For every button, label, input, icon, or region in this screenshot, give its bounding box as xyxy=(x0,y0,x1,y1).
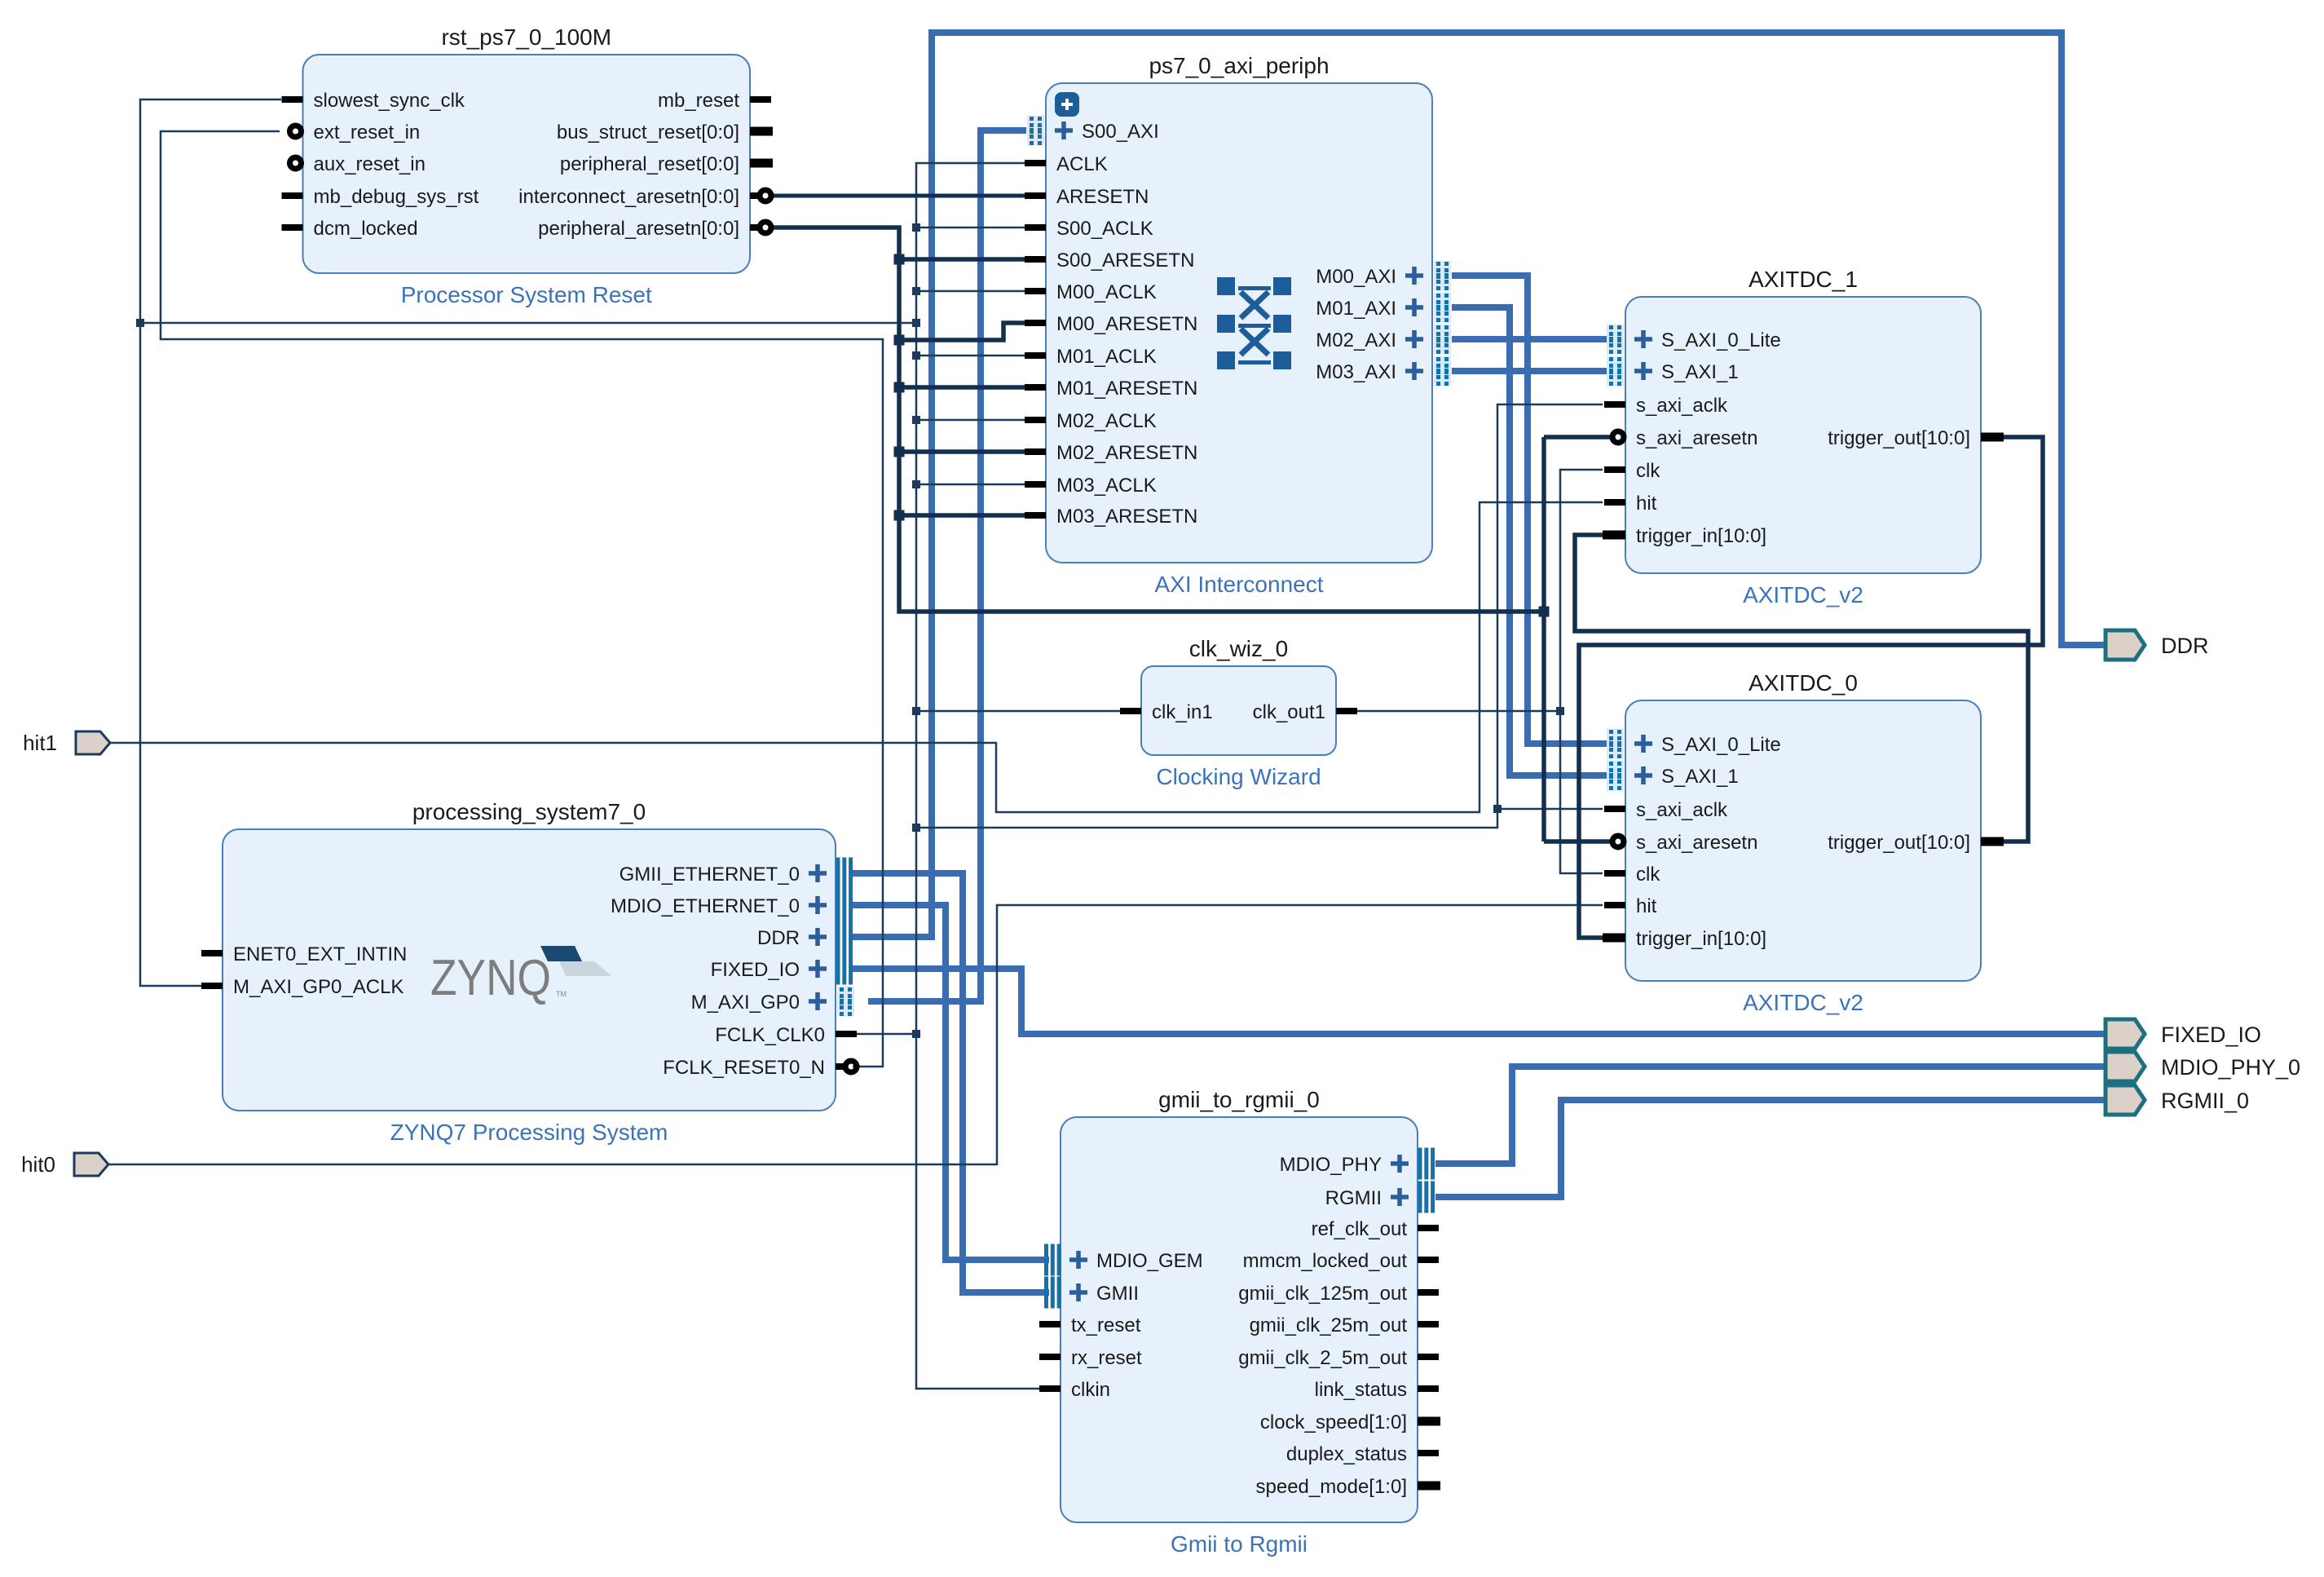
block rst_ps7_0_100M (Processor System Reset) xyxy=(282,24,774,307)
external port FIXED_IO xyxy=(2106,1019,2261,1049)
svg-text:AXITDC_1: AXITDC_1 xyxy=(1749,267,1858,292)
wire net hit0 to AXITDC_0 hit xyxy=(108,905,1603,1164)
svg-text:MDIO_PHY: MDIO_PHY xyxy=(1280,1154,1382,1176)
pin processing_system7_0.FIXED_IO xyxy=(711,953,853,985)
svg-text:S_AXI_0_Lite: S_AXI_0_Lite xyxy=(1661,734,1781,756)
svg-text:ZYNQ7 Processing System: ZYNQ7 Processing System xyxy=(390,1120,668,1145)
expand icon of ps7_0_axi_periph xyxy=(1055,92,1079,117)
pin processing_system7_0.FCLK_CLK0 xyxy=(715,1024,857,1046)
pin AXITDC_1.S_AXI_1 xyxy=(1607,356,1739,387)
pin clk_wiz_0.clk_out1 xyxy=(1253,701,1357,723)
wire bus DDR to external port xyxy=(853,33,2108,937)
wire bus M01_AXI to AXITDC_0 S_AXI_1 xyxy=(1452,307,1607,775)
svg-text:ext_reset_in: ext_reset_in xyxy=(314,121,421,144)
svg-text:ref_clk_out: ref_clk_out xyxy=(1312,1218,1408,1240)
pin gmii_to_rgmii_0.mmcm_locked_out xyxy=(1243,1250,1439,1272)
svg-text:peripheral_aresetn[0:0]: peripheral_aresetn[0:0] xyxy=(538,218,739,240)
svg-text:clk_in1: clk_in1 xyxy=(1152,701,1213,723)
svg-text:AXI Interconnect: AXI Interconnect xyxy=(1154,572,1323,597)
wire net FCLK_CLK0 branch M02_ACLK xyxy=(916,419,1025,422)
svg-text:aux_reset_in: aux_reset_in xyxy=(314,153,426,175)
block gmii_to_rgmii_0 (Gmii to Rgmii) xyxy=(1039,1087,1440,1557)
pin rst_ps7_0_100M.mb_reset xyxy=(658,90,771,112)
external port hit0 xyxy=(74,1153,108,1176)
svg-text:trigger_in[10:0]: trigger_in[10:0] xyxy=(1636,525,1766,547)
pin ps7_0_axi_periph.M03_ACLK xyxy=(1025,475,1157,497)
pin AXITDC_0.s_axi_aresetn xyxy=(1612,832,1757,854)
svg-text:trigger_in[10:0]: trigger_in[10:0] xyxy=(1636,928,1766,950)
wire net peripheral_aresetn to AXITDC_0 s_axi_aresetn xyxy=(1544,839,1612,844)
pin AXITDC_0.s_axi_aclk xyxy=(1604,799,1728,821)
pin processing_system7_0.M_AXI_GP0 xyxy=(691,987,854,1017)
svg-text:speed_mode[1:0]: speed_mode[1:0] xyxy=(1256,1476,1407,1498)
pin ps7_0_axi_periph.S00_ACLK xyxy=(1025,218,1153,240)
pin gmii_to_rgmii_0.GMII xyxy=(1044,1277,1139,1309)
pin gmii_to_rgmii_0.RGMII xyxy=(1325,1182,1435,1213)
pin processing_system7_0.MDIO_ETHERNET_0 xyxy=(611,890,853,921)
svg-text:GMII: GMII xyxy=(1096,1283,1139,1305)
svg-text:MDIO_PHY_0: MDIO_PHY_0 xyxy=(2161,1055,2300,1080)
pin processing_system7_0.FCLK_RESET0_N xyxy=(663,1057,857,1079)
svg-text:peripheral_reset[0:0]: peripheral_reset[0:0] xyxy=(560,153,739,175)
svg-text:clk: clk xyxy=(1636,864,1660,886)
svg-text:hit: hit xyxy=(1636,895,1657,917)
pin rst_ps7_0_100M.peripheral_reset[0:0] xyxy=(560,153,773,175)
svg-text:GMII_ETHERNET_0: GMII_ETHERNET_0 xyxy=(620,864,800,886)
wire net clk_out1 to AXITDC clk pins xyxy=(1560,470,1603,873)
pin ps7_0_axi_periph.M01_ACLK xyxy=(1025,346,1157,368)
svg-text:S00_ARESETN: S00_ARESETN xyxy=(1056,250,1194,272)
wire net peripheral_aresetn branch M01_ARESETN xyxy=(899,385,1025,390)
external port RGMII_0 xyxy=(2106,1085,2249,1115)
pin gmii_to_rgmii_0.MDIO_GEM xyxy=(1044,1244,1203,1276)
svg-text:s_axi_aclk: s_axi_aclk xyxy=(1636,395,1728,417)
wire bus RGMII to external port RGMII_0 xyxy=(1435,1100,2108,1197)
svg-text:tx_reset: tx_reset xyxy=(1071,1314,1141,1336)
svg-text:clkin: clkin xyxy=(1071,1379,1110,1401)
svg-text:bus_struct_reset[0:0]: bus_struct_reset[0:0] xyxy=(557,121,739,144)
svg-text:FIXED_IO: FIXED_IO xyxy=(711,959,800,981)
pin rst_ps7_0_100M.mb_debug_sys_rst xyxy=(282,186,479,208)
junction dots net FCLK_CLK0 xyxy=(136,223,1502,1038)
wire net FCLK_CLK0 branch M03_ACLK xyxy=(916,484,1025,486)
pin ps7_0_axi_periph.M02_ACLK xyxy=(1025,410,1157,432)
pin gmii_to_rgmii_0.gmii_clk_125m_out xyxy=(1238,1283,1439,1305)
wire bus MDIO_ETHERNET_0 to MDIO_GEM xyxy=(853,905,1049,1260)
crossbar icon inside AXI Interconnect xyxy=(1217,277,1291,369)
svg-text:ps7_0_axi_periph: ps7_0_axi_periph xyxy=(1149,53,1329,78)
pin processing_system7_0.DDR xyxy=(757,921,853,953)
pin AXITDC_0.trigger_out[10:0] xyxy=(1828,832,2004,854)
svg-text:M02_ARESETN: M02_ARESETN xyxy=(1056,442,1197,464)
wire net AXITDC_0 trigger_out to AXITDC_1 trigger_in xyxy=(1575,535,2028,842)
pin ps7_0_axi_periph.M00_ARESETN xyxy=(1025,313,1197,335)
svg-text:rx_reset: rx_reset xyxy=(1071,1347,1142,1369)
svg-text:hit0: hit0 xyxy=(21,1152,55,1177)
svg-text:TM: TM xyxy=(556,990,567,998)
svg-text:DDR: DDR xyxy=(757,927,800,949)
pin gmii_to_rgmii_0.ref_clk_out xyxy=(1312,1218,1439,1240)
block ps7_0_axi_periph (AXI Interconnect) xyxy=(1025,53,1451,597)
svg-text:S00_ACLK: S00_ACLK xyxy=(1056,218,1153,240)
pin ps7_0_axi_periph.S00_AXI xyxy=(1027,116,1159,146)
pin ps7_0_axi_periph.M02_ARESETN xyxy=(1025,442,1197,464)
wire net AXITDC_1 trigger_out to AXITDC_0 trigger_in xyxy=(1579,437,2043,938)
pin AXITDC_1.trigger_out[10:0] xyxy=(1828,427,2004,449)
wire bus MDIO_PHY to external port MDIO_PHY_0 xyxy=(1435,1067,2108,1164)
svg-text:ACLK: ACLK xyxy=(1056,153,1108,175)
svg-text:M01_ACLK: M01_ACLK xyxy=(1056,346,1157,368)
pin rst_ps7_0_100M.bus_struct_reset[0:0] xyxy=(557,121,773,144)
svg-text:hit1: hit1 xyxy=(23,731,57,755)
svg-text:hit: hit xyxy=(1636,493,1657,515)
svg-text:s_axi_aresetn: s_axi_aresetn xyxy=(1636,427,1757,449)
svg-text:MDIO_ETHERNET_0: MDIO_ETHERNET_0 xyxy=(611,895,800,917)
svg-text:AXITDC_v2: AXITDC_v2 xyxy=(1743,990,1863,1015)
pin AXITDC_1.s_axi_aresetn xyxy=(1612,427,1757,449)
svg-text:interconnect_aresetn[0:0]: interconnect_aresetn[0:0] xyxy=(518,186,739,208)
pin ps7_0_axi_periph.M01_ARESETN xyxy=(1025,378,1197,400)
pin processing_system7_0.M_AXI_GP0_ACLK xyxy=(201,976,404,998)
pin rst_ps7_0_100M.dcm_locked xyxy=(282,218,418,240)
pin ps7_0_axi_periph.M00_AXI xyxy=(1316,261,1451,291)
svg-text:M02_AXI: M02_AXI xyxy=(1316,329,1396,351)
pin processing_system7_0.GMII_ETHERNET_0 xyxy=(620,858,853,890)
pin gmii_to_rgmii_0.gmii_clk_25m_out xyxy=(1250,1314,1439,1336)
wire bus FIXED_IO to external port xyxy=(853,969,2108,1034)
pin AXITDC_0.trigger_in[10:0] xyxy=(1603,928,1766,950)
pin AXITDC_1.s_axi_aclk xyxy=(1604,395,1728,417)
wire bus GMII_ETHERNET_0 to GMII xyxy=(853,873,1049,1292)
wire bus M00_AXI to AXITDC_0 S_AXI_0_Lite xyxy=(1452,276,1607,744)
svg-text:Processor System Reset: Processor System Reset xyxy=(401,282,652,307)
external port DDR xyxy=(2106,630,2209,660)
svg-text:mmcm_locked_out: mmcm_locked_out xyxy=(1243,1250,1408,1272)
pin rst_ps7_0_100M.ext_reset_in xyxy=(290,121,421,144)
wire net peripheral_aresetn branch M02_ARESETN xyxy=(899,449,1025,454)
pin ps7_0_axi_periph.ACLK xyxy=(1025,153,1108,175)
svg-text:trigger_out[10:0]: trigger_out[10:0] xyxy=(1828,427,1970,449)
svg-text:M01_AXI: M01_AXI xyxy=(1316,298,1396,320)
pin gmii_to_rgmii_0.MDIO_PHY xyxy=(1280,1148,1435,1180)
wire net FCLK_CLK0 branch s_axi_aclk AXITDC_0 xyxy=(1497,808,1603,811)
svg-text:link_status: link_status xyxy=(1315,1379,1407,1401)
pin rst_ps7_0_100M.interconnect_aresetn[0:0] xyxy=(518,186,771,208)
svg-text:M03_ACLK: M03_ACLK xyxy=(1056,475,1157,497)
svg-text:gmii_clk_25m_out: gmii_clk_25m_out xyxy=(1250,1314,1408,1336)
wire net peripheral_aresetn branch M03_ARESETN xyxy=(899,513,1025,518)
block AXITDC_1 (AXITDC_v2) xyxy=(1603,267,2004,607)
external port hit1 xyxy=(76,731,110,754)
wire net peripheral_aresetn trunk xyxy=(774,227,1544,612)
pin processing_system7_0.ENET0_EXT_INTIN xyxy=(201,943,407,965)
pin AXITDC_1.S_AXI_0_Lite xyxy=(1607,325,1781,355)
wire net peripheral_aresetn branch S00_ARESETN xyxy=(899,257,1025,262)
svg-text:S00_AXI: S00_AXI xyxy=(1082,121,1159,143)
svg-text:M00_AXI: M00_AXI xyxy=(1316,266,1396,288)
svg-text:clock_speed[1:0]: clock_speed[1:0] xyxy=(1260,1411,1407,1433)
wire net FCLK_CLK0 cross branch xyxy=(140,322,916,325)
pin gmii_to_rgmii_0.link_status xyxy=(1315,1379,1439,1401)
pin gmii_to_rgmii_0.clkin xyxy=(1039,1379,1110,1401)
svg-text:M00_ACLK: M00_ACLK xyxy=(1056,281,1157,303)
svg-text:RGMII: RGMII xyxy=(1325,1187,1382,1209)
pin rst_ps7_0_100M.peripheral_aresetn[0:0] xyxy=(538,218,771,240)
wire net FCLK_CLK0 branch M01_ACLK xyxy=(916,355,1025,357)
svg-text:Gmii to Rgmii: Gmii to Rgmii xyxy=(1171,1531,1308,1557)
wire net FCLK_CLK0 branch s_axi_aclk AXITDC_1 xyxy=(916,404,1603,828)
wire net FCLK_CLK0 branch clk_in1 xyxy=(916,710,1120,713)
junction dot net clk_out1 xyxy=(1556,707,1564,715)
svg-text:gmii_clk_125m_out: gmii_clk_125m_out xyxy=(1238,1283,1407,1305)
pin ps7_0_axi_periph.S00_ARESETN xyxy=(1025,250,1194,272)
svg-text:Clocking Wizard: Clocking Wizard xyxy=(1156,764,1321,789)
external port MDIO_PHY_0 xyxy=(2106,1052,2300,1081)
svg-text:clk_wiz_0: clk_wiz_0 xyxy=(1189,636,1288,661)
pin ps7_0_axi_periph.M03_AXI xyxy=(1316,356,1451,387)
svg-text:FIXED_IO: FIXED_IO xyxy=(2161,1023,2261,1047)
pin gmii_to_rgmii_0.clock_speed[1:0] xyxy=(1260,1411,1440,1433)
wire net peripheral_aresetn to AXITDC_1 s_axi_aresetn xyxy=(1544,435,1612,440)
wire net FCLK_CLK0 left riser to slowest_sync_clk and M_AXI_GP0_ACLK xyxy=(140,99,281,986)
pin gmii_to_rgmii_0.speed_mode[1:0] xyxy=(1256,1476,1440,1498)
svg-text:M03_AXI: M03_AXI xyxy=(1316,361,1396,383)
svg-text:trigger_out[10:0]: trigger_out[10:0] xyxy=(1828,832,1970,854)
svg-text:M_AXI_GP0: M_AXI_GP0 xyxy=(691,992,800,1014)
pin ps7_0_axi_periph.M01_AXI xyxy=(1316,293,1451,323)
ZYNQ logo inside processing_system7_0 xyxy=(430,946,611,1006)
pin gmii_to_rgmii_0.rx_reset xyxy=(1039,1347,1142,1369)
pin AXITDC_0.S_AXI_1 xyxy=(1607,761,1739,791)
svg-text:FCLK_RESET0_N: FCLK_RESET0_N xyxy=(663,1057,825,1079)
pin AXITDC_0.S_AXI_0_Lite xyxy=(1607,729,1781,759)
svg-text:slowest_sync_clk: slowest_sync_clk xyxy=(314,90,465,112)
wire net FCLK_CLK0 main riser to ACLK and clkin xyxy=(916,163,1041,1389)
pin gmii_to_rgmii_0.tx_reset xyxy=(1039,1314,1141,1336)
wire net peripheral_aresetn right riser xyxy=(1541,437,1546,842)
wire net peripheral_aresetn branch M00_ARESETN xyxy=(899,323,1025,340)
svg-text:processing_system7_0: processing_system7_0 xyxy=(412,799,646,824)
pin gmii_to_rgmii_0.gmii_clk_2_5m_out xyxy=(1238,1347,1439,1369)
block AXITDC_0 (AXITDC_v2) xyxy=(1603,670,2004,1015)
pin ps7_0_axi_periph.M02_AXI xyxy=(1316,325,1451,355)
pin gmii_to_rgmii_0.duplex_status xyxy=(1286,1443,1439,1465)
pin ps7_0_axi_periph.M03_ARESETN xyxy=(1025,506,1197,528)
svg-text:ENET0_EXT_INTIN: ENET0_EXT_INTIN xyxy=(233,943,407,965)
svg-text:M00_ARESETN: M00_ARESETN xyxy=(1056,313,1197,335)
pin AXITDC_1.trigger_in[10:0] xyxy=(1603,525,1766,547)
svg-text:ZYNQ: ZYNQ xyxy=(430,950,551,1006)
wire net hit1 to AXITDC_1 hit xyxy=(110,502,1603,812)
svg-text:M03_ARESETN: M03_ARESETN xyxy=(1056,506,1197,528)
pin rst_ps7_0_100M.aux_reset_in xyxy=(290,153,426,175)
pin rst_ps7_0_100M.slowest_sync_clk xyxy=(282,90,465,112)
svg-text:clk: clk xyxy=(1636,460,1660,482)
svg-text:ARESETN: ARESETN xyxy=(1056,186,1149,208)
svg-text:clk_out1: clk_out1 xyxy=(1253,701,1325,723)
svg-text:M02_ACLK: M02_ACLK xyxy=(1056,410,1157,432)
svg-text:M01_ARESETN: M01_ARESETN xyxy=(1056,378,1197,400)
block processing_system7_0 (ZYNQ7 Processing System) xyxy=(201,799,857,1145)
pin AXITDC_0.hit xyxy=(1604,895,1657,917)
svg-text:s_axi_aclk: s_axi_aclk xyxy=(1636,799,1728,821)
svg-text:mb_reset: mb_reset xyxy=(658,90,739,112)
svg-text:M_AXI_GP0_ACLK: M_AXI_GP0_ACLK xyxy=(233,976,404,998)
wire net FCLK_CLK0 branch M00_ACLK xyxy=(916,290,1025,293)
pin ps7_0_axi_periph.M00_ACLK xyxy=(1025,281,1157,303)
svg-text:AXITDC_0: AXITDC_0 xyxy=(1749,670,1858,696)
svg-text:gmii_to_rgmii_0: gmii_to_rgmii_0 xyxy=(1158,1087,1320,1112)
svg-text:duplex_status: duplex_status xyxy=(1286,1443,1407,1465)
wire bus M_AXI_GP0 to S00_AXI xyxy=(868,130,1026,1001)
svg-text:DDR: DDR xyxy=(2161,634,2209,658)
pin AXITDC_1.clk xyxy=(1604,460,1660,482)
svg-text:S_AXI_1: S_AXI_1 xyxy=(1661,766,1739,788)
junction dots net peripheral_aresetn xyxy=(894,254,1550,617)
wire net interconnect_aresetn to ARESETN xyxy=(774,194,1025,198)
svg-text:rst_ps7_0_100M: rst_ps7_0_100M xyxy=(441,24,611,50)
svg-text:AXITDC_v2: AXITDC_v2 xyxy=(1743,582,1863,607)
svg-text:gmii_clk_2_5m_out: gmii_clk_2_5m_out xyxy=(1238,1347,1407,1369)
svg-text:RGMII_0: RGMII_0 xyxy=(2161,1089,2249,1113)
wire net FCLK_RESET0_N to ext_reset_in xyxy=(161,131,883,1067)
pin clk_wiz_0.clk_in1 xyxy=(1120,701,1213,723)
wire net FCLK_CLK0 stub feed xyxy=(853,1033,916,1036)
svg-text:s_axi_aresetn: s_axi_aresetn xyxy=(1636,832,1757,854)
svg-text:S_AXI_1: S_AXI_1 xyxy=(1661,361,1739,383)
svg-text:MDIO_GEM: MDIO_GEM xyxy=(1096,1250,1203,1272)
svg-text:S_AXI_0_Lite: S_AXI_0_Lite xyxy=(1661,329,1781,351)
pin AXITDC_0.clk xyxy=(1604,864,1660,886)
block clk_wiz_0 (Clocking Wizard) xyxy=(1120,636,1357,789)
svg-text:mb_debug_sys_rst: mb_debug_sys_rst xyxy=(314,186,479,208)
svg-text:dcm_locked: dcm_locked xyxy=(314,218,418,240)
pin AXITDC_1.hit xyxy=(1604,493,1657,515)
wire net clk_wiz_0 clk_out1 xyxy=(1357,710,1560,713)
svg-text:FCLK_CLK0: FCLK_CLK0 xyxy=(715,1024,825,1046)
wire bus M02_AXI to AXITDC_1 S_AXI_0_Lite xyxy=(1452,336,1607,342)
wire bus M03_AXI to AXITDC_1 S_AXI_1 xyxy=(1452,368,1607,374)
wire net FCLK_CLK0 branch S00_ACLK xyxy=(916,227,1025,229)
pin ps7_0_axi_periph.ARESETN xyxy=(1025,186,1149,208)
